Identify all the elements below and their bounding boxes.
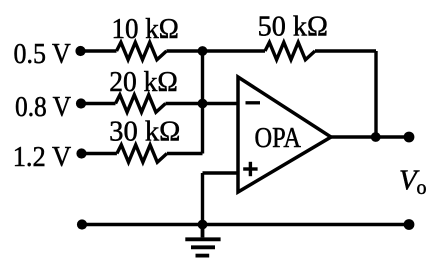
node B junction dot: [198, 99, 208, 109]
svg-text:0.8 V: 0.8 V: [15, 92, 71, 123]
resistor R4 50 kOhm: [265, 42, 315, 59]
svg-text:10 kΩ: 10 kΩ: [112, 14, 179, 45]
wire feedback top rail to R4: [203, 49, 266, 52]
svg-text:50 kΩ: 50 kΩ: [258, 12, 328, 43]
svg-text:20 kΩ: 20 kΩ: [109, 67, 178, 98]
node bottom-right terminal dot: [404, 219, 415, 230]
wire non-inverting to ground rail: [201, 173, 204, 225]
resistor R3 30 kOhm: [117, 145, 167, 162]
svg-text:0.5 V: 0.5 V: [14, 39, 71, 70]
op-amp minus sign: [246, 101, 261, 104]
wire feedback right vertical drop: [374, 51, 377, 137]
wire R4 to right drop: [315, 49, 376, 52]
wire 0.5V lead to R1: [81, 49, 117, 52]
wire summing bus vertical (node A to R3 corner): [201, 51, 204, 154]
node Vo terminal dot: [404, 132, 415, 143]
resistor R2 20 kOhm: [116, 95, 166, 112]
op-amp U1 triangle: [238, 77, 331, 192]
svg-text:OPA: OPA: [255, 122, 302, 154]
node V2 input terminal dot (0.8 V): [76, 98, 86, 108]
wire output: [331, 135, 409, 138]
wire inverting input: [203, 102, 239, 105]
node output junction dot: [371, 132, 381, 142]
ground symbol: [185, 225, 220, 256]
wire bottom ground rail: [82, 223, 409, 226]
op-amp plus sign: [243, 162, 257, 176]
wire R2 to node B: [166, 102, 203, 105]
wire R1 to node A: [167, 49, 203, 52]
svg-text:30 kΩ: 30 kΩ: [109, 117, 180, 148]
wire non-inverting input: [203, 171, 239, 174]
svg-text:1.2 V: 1.2 V: [13, 142, 71, 173]
wire R3 to summing bus: [167, 152, 203, 155]
node ground junction dot: [198, 220, 208, 230]
wire 0.8V lead to R2: [81, 102, 116, 105]
wire 1.2V lead to R3: [82, 152, 117, 155]
node V1 input terminal dot (0.5 V): [75, 46, 85, 56]
node V3 input terminal dot (1.2 V): [76, 148, 86, 158]
node bottom-left terminal dot: [77, 219, 87, 229]
node A junction dot: [198, 46, 208, 56]
svg-text:o: o: [417, 177, 427, 199]
resistor R1 10 kOhm: [117, 42, 167, 59]
